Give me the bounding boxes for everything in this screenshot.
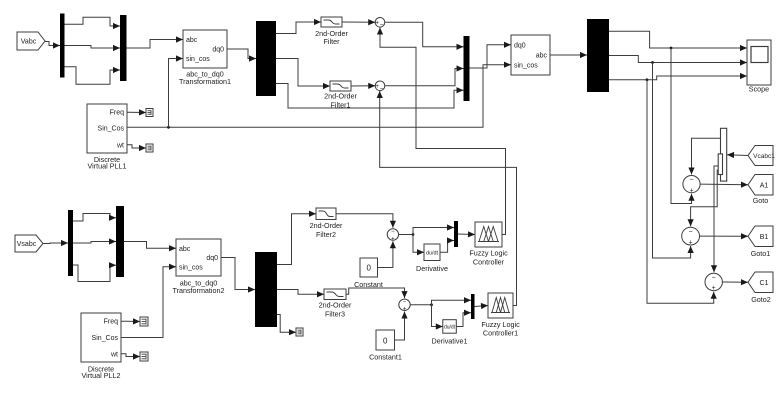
wire Vsabc to Demux5 bbox=[43, 240, 68, 246]
from tag Vcabc1 bbox=[748, 146, 775, 166]
svg-text:Virtual PLL1: Virtual PLL1 bbox=[87, 162, 126, 171]
wire Demux4 out2 to SumB bbox=[688, 170, 720, 226]
demux Demux1 bbox=[60, 14, 65, 78]
terminator Terminator4 bbox=[140, 352, 148, 361]
terminator Terminator3 bbox=[140, 317, 148, 326]
wire PLL1 Sin_Cos to dq0_to_abc sin_cos bbox=[127, 62, 511, 128]
svg-text:du/dt: du/dt bbox=[426, 250, 438, 256]
block abc_to_dq0 Transformation1 bbox=[179, 30, 231, 86]
wire dq0_to_abc to Demux3 bbox=[550, 52, 587, 58]
wire node b to SumB bbox=[653, 63, 694, 259]
svg-text:Vsabc: Vsabc bbox=[17, 241, 37, 248]
sum Sum4 bbox=[399, 299, 410, 313]
terminator Terminator5 bbox=[296, 328, 303, 336]
block 2nd-Order Filter3 bbox=[324, 289, 346, 300]
wire Demux4 out1 to SumA bbox=[688, 138, 720, 174]
svg-text:Scope: Scope bbox=[749, 85, 769, 94]
svg-text:sin_cos: sin_cos bbox=[186, 56, 210, 63]
wire Sum4 out bbox=[410, 304, 431, 306]
demux Demux2 bbox=[256, 21, 276, 96]
junction node c bbox=[646, 78, 649, 81]
svg-text:2nd-Order: 2nd-Order bbox=[310, 221, 343, 230]
wire Fuzzy Logic Controller to Sum1 feedback bbox=[377, 28, 506, 235]
block Constant1 bbox=[369, 330, 402, 362]
wire Mux3 to Transformation2 abc bbox=[124, 242, 176, 252]
mux Mux3 bbox=[116, 206, 124, 277]
wire Demux5 out2 to Mux3 bbox=[73, 238, 116, 244]
svg-text:Goto: Goto bbox=[753, 196, 769, 205]
wire Demux5 out1 to Mux3 bbox=[73, 214, 116, 222]
wire Derivative to Mux4 in2 bbox=[440, 237, 454, 252]
wire Transformation2 dq0 to Demux6 bbox=[221, 258, 255, 293]
svg-text:dq0: dq0 bbox=[206, 255, 218, 262]
wire SumB to Goto1 B1 bbox=[700, 233, 749, 239]
svg-text:B1: B1 bbox=[760, 234, 769, 241]
svg-text:Transformation1: Transformation1 bbox=[179, 77, 231, 86]
svg-text:−: − bbox=[391, 229, 395, 235]
sum SumC bbox=[705, 273, 722, 292]
wire Constant1 to Sum4 bbox=[395, 312, 408, 341]
terminator Terminator2 bbox=[146, 144, 153, 152]
block Fuzzy Logic Controller bbox=[475, 222, 502, 247]
svg-text:Freq: Freq bbox=[104, 319, 119, 326]
svg-text:Sin_Cos: Sin_Cos bbox=[98, 126, 125, 133]
demux Demux3 bbox=[587, 19, 609, 92]
block 2nd-Order Filter bbox=[321, 17, 342, 27]
svg-text:Controller: Controller bbox=[473, 257, 505, 266]
wire Sum4 to Derivative1 bbox=[432, 305, 443, 330]
wire Transformation1 dq0 to Demux2 bbox=[227, 49, 256, 62]
svg-text:abc: abc bbox=[186, 37, 198, 44]
block Constant bbox=[354, 258, 383, 289]
svg-text:+: + bbox=[712, 285, 716, 292]
wire Filter to Sum1 bbox=[342, 19, 375, 25]
wire Sum3 out bbox=[399, 234, 413, 236]
svg-text:Vcabc1: Vcabc1 bbox=[753, 153, 775, 160]
svg-text:Derivative: Derivative bbox=[416, 264, 448, 273]
svg-text:2nd-Order: 2nd-Order bbox=[324, 92, 357, 101]
wire Vcabc1 to Demux4 bbox=[727, 152, 748, 158]
svg-text:A1: A1 bbox=[760, 182, 769, 189]
wire PLL1 wt to Terminator2 bbox=[127, 145, 146, 151]
wire Filter3 to Sum4 bbox=[346, 288, 408, 298]
svg-text:Filter: Filter bbox=[324, 37, 341, 46]
svg-text:Filter2: Filter2 bbox=[316, 230, 336, 239]
svg-text:Controller1: Controller1 bbox=[483, 328, 518, 337]
wire Sum3 to Derivative bbox=[413, 235, 424, 256]
demux Demux5 bbox=[68, 210, 73, 276]
mux Mux2 bbox=[464, 36, 470, 101]
wire Fuzzy Logic Controller1 to Sum2 feedback bbox=[377, 91, 517, 306]
sum Sum3 bbox=[387, 229, 398, 243]
svg-text:Filter3: Filter3 bbox=[325, 310, 345, 319]
svg-text:sin_cos: sin_cos bbox=[514, 63, 538, 70]
svg-text:−: − bbox=[712, 274, 716, 281]
junction node a bbox=[670, 47, 673, 50]
block dq0_to_abc Transformation bbox=[511, 35, 550, 75]
wire Mux5 to Fuzzy Logic Controller1 bbox=[475, 303, 489, 309]
wire Demux3 out1 to Scope bbox=[609, 31, 747, 51]
wire Sum3 to Mux4 in1 bbox=[413, 224, 454, 234]
svg-text:Transformation2: Transformation2 bbox=[172, 286, 224, 295]
wire Mux4 to Fuzzy Logic Controller bbox=[458, 231, 475, 237]
wire Demux1 out2 to Mux1 bbox=[65, 45, 121, 51]
junction Sum4 branch bbox=[430, 303, 433, 306]
from tag Vabc bbox=[17, 32, 45, 50]
wire Demux2 out2 to 2nd-Order Filter1 bbox=[276, 59, 330, 90]
demux Demux4 bbox=[721, 128, 727, 181]
wire Sin_Cos branch to Transformation1 sin_cos bbox=[169, 55, 184, 127]
wire node c to SumC bbox=[647, 80, 717, 303]
svg-text:2nd-Order: 2nd-Order bbox=[319, 300, 352, 309]
goto tag A1 bbox=[748, 175, 773, 196]
wire node a to SumA bbox=[671, 48, 695, 204]
svg-text:−: − bbox=[689, 177, 693, 184]
wire Constant to Sum3 bbox=[378, 241, 397, 267]
svg-text:Freq: Freq bbox=[110, 110, 125, 117]
wire Demux3 out3 to Scope bbox=[609, 73, 747, 80]
svg-text:du/dt: du/dt bbox=[444, 324, 456, 330]
block Derivative1 bbox=[443, 320, 457, 334]
svg-text:−: − bbox=[689, 229, 693, 236]
block Scope bbox=[747, 40, 771, 94]
block Derivative bbox=[424, 244, 440, 261]
demux Demux6 bbox=[255, 252, 277, 327]
sum Sum1 bbox=[375, 18, 385, 30]
block 2nd-Order Filter2 bbox=[316, 208, 336, 220]
mux Mux1 bbox=[120, 15, 127, 81]
block Discrete Virtual PLL1 bbox=[87, 104, 127, 171]
svg-text:−: − bbox=[403, 299, 407, 305]
goto tag B1 bbox=[748, 226, 773, 247]
sum SumB bbox=[682, 227, 700, 246]
wire Sum2 to Mux2 in2 bbox=[385, 65, 464, 85]
sum Sum2 bbox=[375, 81, 385, 93]
junction PLL1 Sin_Cos branch bbox=[167, 126, 170, 129]
junction Sum3 branch bbox=[412, 233, 415, 236]
svg-text:Derivative1: Derivative1 bbox=[432, 337, 468, 346]
wire PLL1 Freq to Terminator1 bbox=[127, 109, 146, 115]
wire PLL2 wt to Terminator4 bbox=[121, 353, 140, 359]
svg-text:wt: wt bbox=[116, 142, 124, 149]
wire Demux1 out3 to Mux1 bbox=[65, 67, 121, 85]
wire Filter2 to Sum3 bbox=[336, 214, 396, 228]
terminator Terminator1 bbox=[146, 109, 153, 117]
wire SumC to Goto2 C1 bbox=[722, 279, 748, 285]
block abc_to_dq0 Transformation2 bbox=[172, 239, 224, 295]
wire Demux6 out1 to 2nd-Order Filter2 bbox=[277, 211, 316, 265]
svg-text:0: 0 bbox=[367, 264, 372, 273]
wire Demux1 out1 to Mux1 bbox=[65, 17, 121, 29]
svg-text:dq0: dq0 bbox=[514, 43, 526, 50]
svg-text:Virtual PLL2: Virtual PLL2 bbox=[81, 371, 120, 380]
svg-text:+: + bbox=[375, 19, 379, 26]
svg-text:dq0: dq0 bbox=[212, 47, 224, 54]
svg-text:Constant1: Constant1 bbox=[369, 353, 402, 362]
svg-text:Constant: Constant bbox=[354, 280, 383, 289]
svg-text:+: + bbox=[375, 83, 379, 90]
mux Mux4 bbox=[454, 221, 458, 247]
wire PLL2 Sin_Cos to Transformation2 sin_cos bbox=[121, 264, 176, 338]
svg-text:sin_cos: sin_cos bbox=[179, 264, 203, 271]
svg-text:−: − bbox=[380, 86, 384, 93]
wire Derivative1 to Mux5 in2 bbox=[456, 310, 471, 327]
wire Mux2 to dq0_to_abc bbox=[470, 42, 512, 68]
mux Mux5 bbox=[471, 294, 475, 319]
wire Sum4 to Mux5 in1 bbox=[432, 297, 472, 305]
svg-text:wt: wt bbox=[110, 351, 118, 358]
wire Demux4 out3 to SumC bbox=[711, 166, 719, 272]
svg-text:abc: abc bbox=[536, 53, 548, 60]
block Discrete Virtual PLL2 bbox=[81, 313, 121, 380]
demux Demux4 selector bar bbox=[718, 154, 722, 175]
svg-text:C1: C1 bbox=[760, 280, 769, 287]
wire Demux2 out3 to Mux2 in3 bbox=[276, 84, 464, 109]
svg-text:0: 0 bbox=[383, 337, 388, 346]
wire Demux5 out3 to Mux3 bbox=[73, 262, 116, 281]
wire Mux1 to abc_to_dq0 Transformation1 bbox=[127, 36, 184, 48]
wire Filter1 to Sum2 bbox=[351, 83, 375, 89]
wire Demux3 out2 to Scope bbox=[609, 56, 747, 66]
wire Demux6 out3 to Terminator5 bbox=[277, 315, 296, 336]
svg-text:Goto1: Goto1 bbox=[751, 249, 771, 258]
wire Demux2 out1 to 2nd-Order Filter bbox=[276, 19, 321, 34]
wire SumA to Goto A1 bbox=[700, 182, 748, 188]
sum SumA bbox=[683, 176, 700, 195]
svg-text:Vabc: Vabc bbox=[21, 39, 37, 46]
wire Vabc to Demux1 bbox=[45, 42, 60, 49]
wire Demux6 out2 to 2nd-Order Filter3 bbox=[277, 290, 324, 298]
svg-text:+: + bbox=[689, 187, 693, 194]
svg-text:Sin_Cos: Sin_Cos bbox=[92, 335, 119, 342]
block 2nd-Order Filter1 bbox=[330, 81, 351, 91]
svg-text:+: + bbox=[689, 239, 693, 246]
wire Sum1 to Mux2 in1 bbox=[385, 22, 464, 50]
block Fuzzy Logic Controller1 bbox=[488, 293, 513, 318]
from tag Vsabc bbox=[15, 235, 43, 252]
goto tag C1 bbox=[748, 272, 773, 293]
junction node b bbox=[651, 61, 654, 64]
svg-text:Goto2: Goto2 bbox=[751, 295, 771, 304]
wire PLL2 Freq to Terminator3 bbox=[121, 318, 140, 324]
svg-text:Fuzzy Logic: Fuzzy Logic bbox=[469, 248, 508, 257]
svg-text:abc: abc bbox=[179, 246, 191, 253]
